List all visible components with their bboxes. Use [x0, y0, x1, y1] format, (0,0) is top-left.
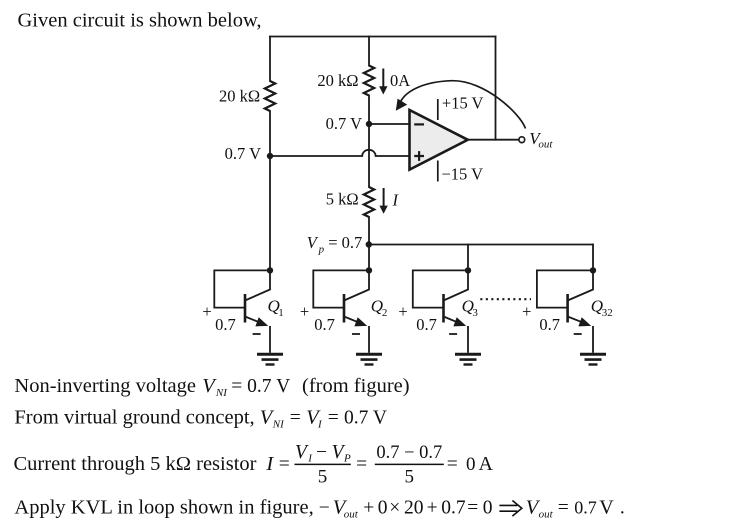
svg-text:0.7: 0.7 — [539, 315, 560, 334]
node plus input 0.7V — [267, 153, 273, 159]
svg-text:0.7 V: 0.7 V — [225, 144, 261, 163]
svg-text:20 kΩ: 20 kΩ — [219, 87, 260, 106]
svg-text:out: out — [539, 508, 554, 520]
terminal Vout open circle — [519, 137, 525, 143]
svg-text:×: × — [389, 497, 400, 518]
svg-text:Given circuit is shown below,: Given circuit is shown below, — [18, 10, 262, 32]
svg-text:5: 5 — [318, 467, 328, 488]
svg-text:−: − — [319, 497, 330, 518]
text line 4 — [14, 496, 624, 520]
svg-text:=: = — [279, 454, 290, 475]
svg-text:From virtual ground concept,: From virtual ground concept, — [14, 407, 254, 429]
arrow I current — [379, 188, 387, 214]
wire minus input — [369, 123, 410, 125]
wire Q32 drop — [592, 245, 594, 271]
svg-text:I: I — [307, 452, 313, 464]
KVL loop curved arrow — [396, 81, 526, 129]
svg-text:+15 V: +15 V — [442, 93, 484, 112]
svg-text:0.7 − 0.7: 0.7 − 0.7 — [376, 443, 442, 463]
svg-text:= 0.7: = 0.7 — [328, 233, 362, 252]
svg-text:0.7: 0.7 — [574, 497, 597, 517]
svg-text:+: + — [202, 302, 211, 321]
svg-text:Current through 5 kΩ resistor: Current through 5 kΩ resistor — [14, 453, 257, 475]
svg-text:0.7: 0.7 — [215, 315, 236, 334]
resistor R2 20k (mid) — [364, 66, 374, 96]
node Vp — [366, 241, 372, 247]
wire feedback vertical — [495, 37, 497, 140]
svg-text:I: I — [265, 453, 274, 475]
svg-text:5 kΩ: 5 kΩ — [326, 190, 359, 209]
svg-text:out: out — [344, 508, 359, 520]
transistor Q3 — [398, 267, 478, 353]
svg-text:−: − — [316, 442, 327, 463]
svg-text:V: V — [295, 442, 309, 463]
svg-text:=: = — [290, 408, 301, 429]
dotted continuation Q3..Q32 — [480, 298, 531, 300]
svg-text:I: I — [392, 191, 400, 210]
svg-text:=: = — [356, 454, 367, 475]
svg-text:0.7 V: 0.7 V — [326, 114, 362, 133]
svg-text:=: = — [328, 408, 339, 429]
svg-text:0.7: 0.7 — [314, 315, 335, 334]
svg-text:p: p — [318, 243, 325, 255]
svg-text:0A: 0A — [390, 71, 410, 90]
wire -15V supply stub — [437, 161, 439, 182]
node minus input 0.7V — [366, 121, 372, 127]
svg-text:Apply KVL in loop shown in fig: Apply KVL in loop shown in figure, — [14, 496, 313, 518]
svg-text:P: P — [343, 452, 351, 464]
svg-text:NI: NI — [272, 419, 285, 431]
svg-text:(from figure): (from figure) — [302, 375, 410, 397]
svg-text:0: 0 — [378, 497, 388, 518]
svg-text:out: out — [538, 138, 553, 150]
wire +15V supply stub — [437, 99, 439, 120]
transistor Q32 — [522, 267, 613, 353]
wire left branch lower — [269, 111, 271, 270]
svg-text:+: + — [300, 302, 309, 321]
resistor R3 5k — [364, 187, 374, 217]
svg-text:20: 20 — [404, 497, 424, 518]
wire plus input with hop over mid branch — [270, 150, 410, 156]
wire left branch upper — [269, 37, 271, 82]
wire Q3 drop — [467, 245, 469, 271]
svg-text:+: + — [398, 302, 407, 321]
svg-text:.: . — [620, 497, 625, 518]
svg-text:= 0.7 V: = 0.7 V — [231, 376, 290, 397]
svg-text:5: 5 — [405, 467, 415, 488]
resistor R1 20k (left) — [265, 81, 275, 111]
svg-text:0.7: 0.7 — [416, 315, 437, 334]
svg-text:A: A — [479, 453, 494, 475]
svg-text:2: 2 — [382, 307, 388, 319]
arrow 0A current — [379, 69, 387, 95]
op-amp U1 — [410, 110, 468, 170]
wire Vp rail — [369, 244, 593, 246]
transistor Q2 — [300, 267, 388, 353]
svg-text:−15 V: −15 V — [442, 164, 484, 183]
svg-text:3: 3 — [472, 307, 478, 319]
svg-text:V: V — [599, 496, 614, 518]
transistor Q1 — [202, 267, 283, 353]
svg-text:NI: NI — [215, 387, 228, 399]
wire mid branch middle — [368, 96, 370, 188]
wire mid branch lower — [368, 217, 370, 270]
text line 2 — [14, 407, 387, 431]
ground under Q1 — [257, 354, 283, 364]
svg-text:=: = — [467, 497, 478, 518]
svg-text:1: 1 — [278, 307, 284, 319]
ground under Q2 — [356, 354, 382, 364]
svg-text:I: I — [317, 419, 323, 431]
svg-text:20 kΩ: 20 kΩ — [317, 71, 358, 90]
svg-text:V: V — [307, 233, 319, 252]
ground under Q32 — [580, 354, 606, 364]
svg-text:+: + — [427, 497, 438, 518]
wire op-amp output — [468, 139, 519, 141]
svg-text:0: 0 — [466, 454, 476, 475]
ground under Q3 — [455, 354, 481, 364]
svg-text:0.7 V: 0.7 V — [344, 408, 387, 429]
svg-text:+: + — [363, 497, 374, 518]
svg-text:0.7: 0.7 — [441, 497, 466, 518]
svg-text:Non-inverting voltage: Non-inverting voltage — [14, 375, 196, 397]
svg-text:=: = — [558, 497, 569, 518]
svg-text:+: + — [522, 302, 531, 321]
svg-text:=: = — [447, 454, 458, 475]
wire mid branch upper — [368, 37, 370, 66]
wire top rail — [270, 36, 496, 38]
svg-text:0: 0 — [483, 497, 493, 518]
text line 3 with fractions — [14, 442, 494, 488]
svg-text:32: 32 — [602, 307, 613, 319]
text line 1 — [14, 375, 409, 399]
